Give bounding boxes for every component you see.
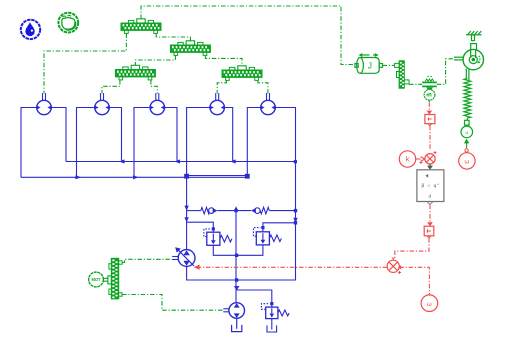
svg-text:ω: ω [427,302,432,308]
svg-text:k: k [406,155,410,164]
svg-text:u: u [466,130,469,135]
svg-text:d: d [429,194,432,199]
svg-text:β ∩ q°: β ∩ q° [421,183,439,188]
svg-text:MOT: MOT [91,277,101,282]
svg-text:J: J [368,61,372,71]
svg-text:ω: ω [465,159,470,165]
